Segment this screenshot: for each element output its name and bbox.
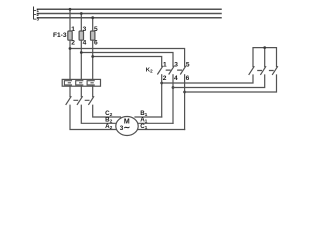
svg-text:2: 2 (163, 75, 167, 82)
wire main contact 1 to motor A2 (70, 105, 116, 129)
wire motor C1 to K2 pin 6 (135, 129, 185, 131)
wire motor B1 to K2 pin 2 (135, 116, 162, 118)
star contactor contact 2 blade (261, 67, 266, 75)
star contactor contact 3 blade (273, 67, 278, 75)
star contactor linkage dashes (258, 70, 273, 72)
junction dot fuse F2 tap (80, 51, 83, 54)
svg-text:4: 4 (174, 75, 178, 82)
fuse F3 body (91, 31, 95, 40)
junction dot node A1 tap (172, 86, 175, 89)
star bar middle leg (264, 48, 266, 67)
star point bar (253, 48, 277, 67)
wire A1 tap to star contact 2 (173, 75, 265, 88)
junction dot fuse F3 tap (91, 55, 94, 58)
main contactor contact 2 blade (77, 97, 82, 105)
wire main contact 3 to motor C2 (93, 105, 121, 117)
power rail L1 (38, 8, 222, 10)
contactor K2 contact 2 blade (169, 66, 174, 74)
wire K2 pin 6 down to motor C1 (184, 75, 186, 130)
wire overload to main contact 2 (80, 86, 82, 97)
wire overload to main contact 1 (69, 86, 71, 97)
junction dot node B1 tap (160, 82, 163, 85)
motor M body (116, 117, 138, 136)
wire main contact 2 to motor B2 (81, 105, 116, 123)
contactor K2 contact 3 blade (181, 66, 186, 74)
wire fuse F1 down to overload (69, 40, 71, 79)
wire K2 pin 4 down to motor A1 (172, 75, 174, 124)
junction dot L1 tap (69, 8, 72, 11)
svg-text:6: 6 (94, 40, 98, 47)
wire K2 pin 2 down to motor B1 (161, 75, 163, 117)
wire motor A1 to K2 pin 4 (138, 122, 174, 124)
wire fuse F2 down to overload (80, 40, 82, 79)
svg-text:L3: L3 (33, 15, 40, 21)
wire overload to main contact 3 (92, 86, 94, 97)
power rail L2 (38, 13, 222, 15)
svg-text:5: 5 (94, 26, 98, 33)
fuse F1 body (68, 31, 72, 40)
wire L3 to fuse F3 (92, 18, 94, 31)
wire fuse F1 tap to K2 pin 5 (70, 49, 185, 67)
junction dot star point (263, 46, 266, 49)
svg-text:3: 3 (174, 62, 178, 69)
star contactor contact 1 blade (249, 67, 254, 75)
overload relay F4 box (62, 79, 100, 86)
overload heater 2 (76, 81, 83, 85)
fuse F2 body (79, 31, 83, 40)
svg-text:6: 6 (186, 75, 190, 82)
main contactor contact 3 blade (89, 97, 94, 105)
svg-text:F1-3: F1-3 (53, 32, 67, 39)
junction dot fuse F1 tap (69, 47, 72, 50)
junction dot node C1 tap (183, 91, 186, 94)
svg-text:1: 1 (71, 26, 75, 33)
junction dot L2 tap (80, 12, 83, 15)
power rail L3 (38, 17, 222, 19)
wire fuse F3 tap to K2 pin 1 (93, 57, 162, 67)
wire B1 tap to star contact 1 (162, 75, 253, 83)
wire C1 tap to star contact 3 (185, 75, 277, 92)
svg-text:5: 5 (186, 62, 190, 69)
main contactor contact 1 blade (66, 97, 71, 105)
contactor K2 linkage dashes (166, 69, 181, 71)
svg-text:2: 2 (71, 40, 75, 47)
wire L2 to fuse F2 (80, 14, 82, 32)
overload heater 3 (87, 81, 94, 85)
main contactor linkage dashes (74, 99, 89, 101)
wire fuse F3 down to overload (92, 40, 94, 79)
svg-text:K2: K2 (146, 67, 153, 73)
svg-text:4: 4 (83, 40, 87, 47)
svg-text:3∼: 3∼ (120, 123, 131, 132)
overload heater 1 (64, 81, 71, 85)
wire fuse F2 tap to K2 pin 3 (81, 53, 173, 67)
junction dot L3 tap (91, 16, 94, 19)
svg-text:3: 3 (83, 26, 87, 33)
wire L1 to fuse F1 (69, 9, 71, 31)
svg-text:1: 1 (163, 62, 167, 69)
contactor K2 contact 1 blade (158, 66, 163, 74)
